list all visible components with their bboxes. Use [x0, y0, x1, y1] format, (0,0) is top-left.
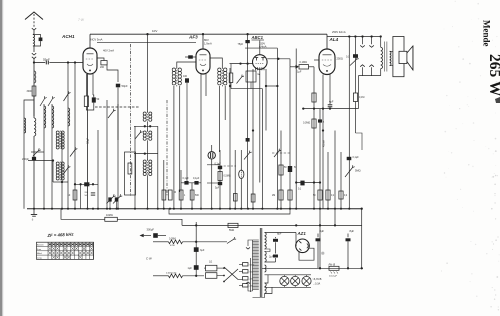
scan blot top right — [495, 97, 500, 103]
resistor grid 0,3M — [230, 64, 232, 73]
output transformer primary — [381, 47, 383, 68]
svg-text:C·W: C·W — [146, 257, 152, 261]
wire x52 — [51, 104, 53, 209]
svg-text:200: 200 — [100, 66, 105, 69]
wire to mains sw — [238, 279, 243, 281]
wire — [309, 66, 315, 68]
resistor x281 low — [279, 190, 283, 200]
capacitor 50pF — [116, 84, 120, 88]
switch blade band 3 — [64, 94, 69, 102]
svg-text:50: 50 — [284, 167, 287, 169]
wire lamp rail top — [265, 274, 312, 276]
svg-text:ZF = 468 kHz: ZF = 468 kHz — [46, 232, 74, 238]
svg-text:55pF: 55pF — [43, 57, 50, 61]
capacitor x320 small — [318, 119, 322, 122]
grid cap AF3 — [188, 55, 193, 58]
svg-text:45mA: 45mA — [322, 140, 326, 147]
tube ABC1 grid — [256, 63, 265, 65]
wire — [107, 65, 118, 82]
switch blade osc — [108, 111, 114, 118]
tube AF3 pin dot — [202, 69, 204, 71]
wire — [210, 58, 222, 68]
svg-text:3µF: 3µF — [200, 249, 205, 252]
svg-text:AL4: AL4 — [329, 37, 339, 42]
svg-text:Bereich: Bereich — [37, 245, 44, 247]
wire x341 — [340, 152, 342, 209]
svg-text:50pF: 50pF — [122, 84, 128, 88]
wire grid top — [259, 41, 261, 55]
wire B+ rail — [262, 267, 363, 269]
phono arrow — [140, 234, 144, 238]
svg-text:500: 500 — [195, 195, 200, 197]
svg-text:10: 10 — [68, 194, 71, 197]
node anode dots — [348, 35, 350, 37]
wire x98 — [97, 130, 99, 209]
wire — [250, 82, 252, 89]
wire TA line — [153, 241, 169, 243]
wire — [183, 275, 205, 277]
tube ABC1 diode plates — [256, 58, 258, 61]
svg-text:200: 200 — [85, 192, 89, 194]
arrester resistor — [34, 35, 41, 38]
svg-text:265 W: 265 W — [486, 54, 500, 97]
tube ABC1 pins — [255, 67, 257, 70]
svg-text:0,1µF: 0,1µF — [193, 177, 200, 180]
wire x281 — [280, 131, 282, 209]
capacitor 0,1uF a — [184, 181, 188, 185]
switch blade AGC — [237, 77, 242, 84]
wire antenna lead-in — [33, 14, 35, 28]
svg-text:250V 32mA: 250V 32mA — [332, 30, 346, 34]
svg-text:0,3MΩ: 0,3MΩ — [303, 122, 310, 125]
oscillator coil pair lower — [56, 162, 59, 165]
svg-text:4700: 4700 — [170, 245, 176, 247]
svg-text:⏚: ⏚ — [31, 217, 34, 222]
wire ACH1 g2 down — [92, 74, 94, 95]
node — [195, 224, 197, 226]
svg-text:32µF: 32µF — [86, 137, 90, 144]
wire x44 — [43, 104, 45, 209]
power transformer secondary HV upper — [265, 233, 267, 250]
wire to OT — [380, 37, 382, 48]
wire return rail B — [169, 209, 290, 214]
AVC dashed — [95, 106, 140, 108]
wire — [147, 122, 149, 132]
grid leak box — [246, 71, 256, 82]
wire ACH1 cathode down — [87, 74, 89, 209]
svg-text:50: 50 — [97, 98, 100, 101]
wire chassis bus — [27, 208, 362, 210]
ground symbol — [33, 209, 35, 214]
wire x163.8 — [163, 160, 165, 209]
wire x235 — [234, 150, 236, 209]
gang dashed link 2 — [166, 100, 168, 196]
switch blade tone top — [227, 239, 234, 243]
oscillator coil pair upper — [56, 131, 59, 134]
gang dashed link 1 — [130, 44, 132, 196]
wire x118 osc — [117, 104, 119, 140]
wire return rail C — [182, 224, 362, 226]
power transformer secondary HV lower — [265, 252, 267, 263]
wire — [205, 74, 207, 96]
resistor 1 Ohm box — [206, 265, 217, 271]
svg-text:Pb·B: Pb·B — [329, 262, 336, 266]
svg-text:2µF: 2µF — [269, 256, 274, 259]
coil x52 — [52, 106, 54, 128]
resistor 7,5 box — [206, 273, 217, 279]
wire — [158, 235, 166, 237]
svg-text:0,1: 0,1 — [331, 195, 335, 197]
scan left edge bar — [0, 0, 2, 316]
tone box lower — [356, 133, 363, 150]
wire — [217, 275, 222, 277]
capacitor 2uF b — [273, 255, 278, 258]
node antenna junction — [33, 61, 35, 63]
wire rail — [134, 125, 158, 127]
wire — [224, 86, 226, 120]
tube AL4 grid — [322, 59, 332, 61]
tube AF3 cathode — [200, 64, 206, 66]
output transformer core — [383, 42, 385, 72]
resistor cathode — [84, 96, 88, 107]
wire cathode rail — [303, 108, 358, 110]
wire fil bottom — [265, 287, 273, 293]
wire — [33, 59, 35, 63]
gray smudge — [321, 252, 324, 255]
wire x181 — [180, 170, 182, 209]
wire branch x24 — [24, 100, 34, 209]
tube AL4 anode — [323, 54, 332, 56]
wire sec bottom — [265, 261, 276, 263]
wire x230 — [229, 68, 231, 209]
bus junction dots — [33, 208, 35, 210]
svg-text:2M: 2M — [272, 195, 275, 197]
svg-text:3000: 3000 — [27, 90, 33, 93]
wire link y182 — [296, 182, 320, 184]
wire — [211, 159, 213, 209]
dial lamp 2 — [291, 276, 300, 285]
node — [74, 61, 76, 63]
wire — [117, 219, 182, 225]
capacitor 75pF — [247, 34, 249, 63]
capacitor cathode — [92, 97, 96, 102]
capacitor 100pF — [185, 78, 189, 82]
resistor x320 — [318, 190, 322, 200]
scan speckles right margin — [458, 46, 459, 47]
svg-text:Mende: Mende — [482, 20, 492, 47]
wire AZ1 to B+ — [319, 225, 321, 268]
wire — [33, 30, 35, 34]
svg-text:0,05M: 0,05M — [169, 237, 176, 240]
wire 150V line — [245, 47, 277, 49]
IF transformer 1 primary — [143, 112, 146, 115]
svg-text:→0,3A: →0,3A — [313, 282, 321, 285]
svg-text:100: 100 — [183, 75, 188, 78]
wire stub left b — [207, 182, 220, 184]
wire — [183, 241, 228, 243]
resistor zigzag 0,05M — [169, 240, 183, 244]
svg-text:0,025/0,05: 0,025/0,05 — [166, 272, 177, 274]
speaker frame — [393, 37, 404, 77]
svg-text:≈6,3V/B: ≈6,3V/B — [313, 278, 322, 281]
speaker voice coil — [399, 51, 407, 63]
wire mid link y184.3 — [75, 183, 98, 185]
resistor x290 low — [288, 190, 292, 200]
wire — [204, 267, 206, 269]
svg-text:ACH1: ACH1 — [61, 34, 75, 39]
switch blade IFT — [135, 133, 140, 140]
resistor x281 up — [279, 165, 283, 175]
wire ABC1 stems — [252, 69, 254, 209]
svg-text:1,9mA: 1,9mA — [204, 41, 212, 45]
svg-text:0,2: 0,2 — [344, 195, 348, 197]
wire x335 — [334, 131, 336, 226]
svg-text:0,1µF: 0,1µF — [183, 177, 190, 180]
tube AZ1 envelope — [296, 239, 310, 253]
wire primary taps — [248, 240, 253, 246]
svg-text:AF3: AF3 — [188, 35, 198, 40]
wire IFT1 top — [147, 34, 149, 112]
resistor x192 — [190, 190, 194, 200]
dashed link left — [272, 152, 290, 154]
wire AZ1 plate feed — [295, 239, 297, 243]
svg-text:4: 4 — [323, 121, 325, 123]
switch blade osc b — [63, 168, 68, 175]
svg-text:300µF: 300µF — [147, 228, 155, 232]
svg-text:75pF: 75pF — [238, 43, 244, 46]
output transformer secondary — [390, 51, 391, 65]
svg-text:1µF: 1µF — [188, 267, 193, 270]
wire x241 — [240, 150, 242, 170]
wire x328 — [327, 152, 329, 209]
power transformer core — [259, 228, 261, 297]
resistor 0,5MOhm — [218, 172, 222, 181]
tube AF3 grid — [199, 59, 207, 61]
shield box — [125, 152, 136, 195]
wire — [173, 86, 175, 209]
capacitor 0,1uF top — [353, 54, 358, 58]
wire link — [181, 182, 201, 184]
trimmer capacitors padding — [108, 197, 111, 201]
svg-text:5MΩ: 5MΩ — [229, 229, 234, 232]
wire AL4 g2 down — [322, 75, 324, 209]
wire fil top — [265, 275, 269, 283]
switch blade right — [247, 64, 249, 209]
wire — [33, 136, 35, 209]
wire right drop — [361, 209, 363, 269]
tube AL4 pin dot — [326, 70, 328, 72]
wire x349 — [348, 37, 350, 209]
tube ACH1 anode — [87, 53, 94, 55]
wire — [355, 102, 357, 134]
node — [295, 181, 297, 183]
wire — [275, 258, 277, 262]
wire detector feed — [230, 63, 254, 65]
speaker plug upper chevrons — [362, 37, 364, 45]
node — [322, 129, 324, 131]
tube AL4 cathode — [323, 65, 331, 67]
wire AL4 cathode — [329, 75, 331, 105]
resistor on x253 — [251, 194, 255, 202]
tube ACH1 grid — [86, 58, 94, 60]
speaker cone — [407, 46, 413, 70]
switch blade band 1 — [40, 99, 45, 107]
speaker plug lower chevrons — [360, 65, 365, 67]
wire x157.8 — [157, 126, 159, 208]
capacitor 1uF — [194, 265, 199, 270]
wire — [33, 46, 35, 52]
antenna — [25, 12, 43, 20]
capacitor 55pF — [34, 62, 45, 64]
svg-text:40V 2mA: 40V 2mA — [103, 49, 114, 53]
wire — [147, 141, 149, 161]
svg-text:7·W: 7·W — [78, 18, 85, 22]
resistor 200 — [101, 61, 107, 65]
resistor ~x170 — [168, 190, 172, 200]
switch blade band 2 — [48, 99, 53, 107]
switch contact rects — [243, 263, 249, 266]
capacitor 0,1uF b — [194, 181, 198, 185]
headphone jack — [208, 152, 215, 159]
wire x107 — [106, 100, 108, 209]
wire x68 — [67, 63, 69, 209]
IF transformer 2 — [143, 160, 146, 163]
capacitor 200pF — [32, 157, 36, 160]
coil antenna primary — [34, 71, 36, 83]
wire grid feed — [75, 62, 83, 64]
wire speaker rail — [358, 75, 380, 77]
wire stub left a — [207, 164, 220, 166]
wire x355 top drop — [354, 37, 356, 94]
resistor zigzag 0,025 — [169, 274, 183, 278]
svg-text:0,1µF: 0,1µF — [353, 156, 360, 159]
capacitor 0,1 x220 — [219, 150, 221, 209]
potentiometer 5M — [345, 168, 353, 178]
resistor 3000 — [32, 86, 36, 96]
tube AF3 envelope — [196, 49, 210, 74]
capacitor x247 low — [246, 138, 250, 142]
resistor x341 — [339, 191, 343, 199]
node — [202, 33, 204, 35]
diode detector arrow — [296, 65, 299, 69]
wire — [147, 176, 149, 209]
wire speaker leads — [390, 50, 393, 52]
wire sec CT — [265, 249, 271, 252]
svg-text:1µF: 1µF — [297, 71, 302, 74]
wire bass line — [153, 275, 169, 277]
coil x44 — [44, 106, 46, 128]
wire x290 — [289, 67, 291, 130]
IF output transformer — [218, 68, 221, 71]
wire switch bus — [250, 258, 252, 292]
wire OT bottom — [380, 69, 382, 76]
coil band L2 — [34, 118, 36, 136]
resistor 10MOhm in rail — [105, 217, 118, 221]
wire — [33, 96, 35, 118]
svg-text:250Ω: 250Ω — [337, 57, 343, 61]
svg-text:8µF: 8µF — [277, 232, 282, 236]
wire x320 — [319, 109, 321, 226]
wire — [222, 267, 224, 269]
wire x75 AVC — [74, 63, 76, 209]
wire lamp rail bottom — [265, 286, 312, 288]
wire — [117, 88, 119, 209]
wire x135 — [134, 126, 136, 208]
wire x296 — [295, 49, 297, 209]
wire — [218, 86, 220, 152]
svg-text:0,5MΩ: 0,5MΩ — [224, 175, 231, 178]
power transformer filament winding — [265, 283, 267, 294]
node — [67, 61, 69, 63]
resistor 10 low — [73, 190, 77, 200]
wire — [28, 160, 52, 162]
wire diode line — [267, 58, 290, 60]
arrester arrow — [32, 28, 36, 30]
wire rail drop — [357, 76, 359, 109]
tube AZ1 anode dash b — [299, 249, 301, 251]
wire rail 2 — [134, 153, 158, 155]
wire x196 column — [195, 222, 197, 276]
svg-text:2x0,1µF: 2x0,1µF — [329, 276, 338, 278]
dial lamp 1 — [280, 276, 289, 285]
wire x80.6 — [80, 184, 82, 208]
svg-text:10MΩ: 10MΩ — [106, 214, 113, 217]
svg-text:5µF: 5µF — [215, 187, 220, 190]
resistor 50000 — [162, 190, 166, 200]
svg-text:1: 1 — [184, 195, 186, 197]
switch blade osc a — [70, 150, 75, 157]
resistor on x235 — [234, 194, 238, 202]
svg-text:50: 50 — [294, 167, 297, 169]
wire — [179, 86, 181, 192]
wire AF3 bottom — [200, 74, 202, 209]
svg-text:50: 50 — [313, 195, 316, 197]
wire screen — [97, 58, 104, 61]
capacitor 200/50 low — [91, 192, 95, 194]
volume potentiometer — [239, 170, 244, 179]
wire — [290, 66, 296, 68]
svg-text:8µF: 8µF — [320, 229, 325, 233]
resistor x328 — [326, 190, 330, 200]
band switch table — [37, 242, 94, 259]
resistor in box — [128, 163, 132, 174]
speaker switch blade — [350, 59, 357, 65]
svg-text:1Ω: 1Ω — [209, 260, 212, 263]
wire IFT in top — [177, 62, 196, 68]
coil x68 — [68, 108, 70, 126]
tube ACH1 pin dot — [89, 69, 91, 71]
power transformer secondary mid — [265, 265, 267, 272]
tube ABC1 envelope — [252, 55, 267, 70]
svg-text:ABC1: ABC1 — [251, 35, 264, 40]
resistor 5MOhm in rail C — [228, 223, 238, 227]
power transformer primary winding — [253, 239, 259, 241]
capacitor 3uF — [194, 247, 199, 252]
tube ACH1 cathode — [87, 64, 93, 66]
capacitor phono — [153, 233, 158, 238]
svg-text:Mittel: Mittel — [37, 252, 42, 255]
svg-text:AZ1: AZ1 — [297, 231, 307, 236]
connector chevrons — [32, 53, 36, 55]
tone switch cross — [224, 267, 238, 280]
resistor 0,1MOhm horizontal — [299, 65, 309, 69]
capacitor — [218, 182, 222, 185]
tube AZ1 anode dash a — [299, 241, 301, 243]
wire link ABC1 grid — [266, 85, 277, 87]
capacitor 0,1uF feedback — [347, 157, 352, 160]
dashed link volume — [220, 165, 236, 167]
tube AL4 envelope — [319, 49, 335, 75]
